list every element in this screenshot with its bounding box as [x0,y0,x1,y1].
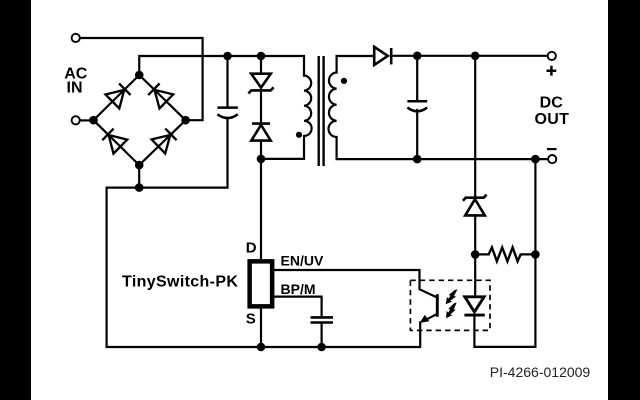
svg-text:OUT: OUT [534,111,569,128]
node bridge left [89,116,98,125]
wire bridge arm left-bottom [94,120,140,165]
wire bridge arm bottom-right [139,120,185,165]
wire opto LED cathode to bottom loop [474,159,535,347]
optocoupler dashed box [410,280,490,330]
resistor feedback [489,247,521,261]
wire EN/UV to opto collector [274,270,419,289]
capacitor bypass BP/M [311,317,334,322]
optocoupler photon arrow upper [446,289,458,304]
svg-text:BP/M: BP/M [281,281,316,297]
node clamp bottom / D net [257,155,266,164]
wire output rail diode to DC+ [391,55,547,57]
bridge diode lower-right [152,129,177,154]
svg-text:IN: IN [67,80,83,97]
wire top rail from bridge top node to primary top [139,56,304,76]
bridge diode lower-left [102,129,127,154]
svg-text:D: D [246,240,257,257]
node bottom return tee [135,183,144,192]
optocoupler phototransistor [420,289,438,320]
label minus [547,148,557,150]
node bridge top [135,71,144,80]
bridge diode upper-left [106,84,131,109]
transformer core [319,56,324,166]
svg-text:TinySwitch-PK: TinySwitch-PK [122,274,238,291]
svg-text:PI-4266-012009: PI-4266-012009 [490,364,591,380]
label plus [547,66,557,76]
node bridge bottom [135,161,144,170]
wire bridge arm left-top [94,75,140,120]
wire left return down to bottom rail [107,188,421,347]
wire AC top terminal to bridge right node [80,38,202,120]
wire BP/M to bypass cap [274,297,321,317]
svg-text:DC: DC [540,94,564,111]
wire filter cap bottom lead to bottom return [139,118,227,188]
transformer primary phase dot [296,132,302,138]
wire output cap leads [416,56,418,159]
wire bridge arm top-right [139,75,185,120]
wire primary bottom lead [261,136,304,159]
terminal AC bottom [72,116,80,124]
transformer primary winding [304,76,312,137]
wire clamp chain / D net [260,56,262,259]
svg-text:S: S [246,311,256,328]
optocoupler photon arrow lower [446,303,457,319]
optocoupler LED [464,297,484,315]
node resistor-rail junction [531,250,540,259]
node clamp top [257,52,266,61]
terminal AC top [72,34,80,42]
node bridge right [181,116,190,125]
node feedback tap + [471,52,480,61]
transformer secondary phase dot [341,78,347,84]
diode output rectifier [374,47,391,65]
node filter cap top [223,52,232,61]
wire filter cap top lead [226,56,228,107]
node output cap top [413,52,422,61]
bridge diode upper-right [148,84,173,109]
IC TinySwitch-PK U1 [250,261,273,306]
node output cap bottom [413,155,422,164]
zener clamp VR [248,74,273,94]
capacitor input filter [217,108,237,118]
wire bypass cap bottom lead [321,324,323,347]
svg-text:EN/UV: EN/UV [281,253,324,269]
node minus rail tap [531,155,540,164]
wire AC bottom terminal to bridge left node [80,119,93,121]
diode clamp blocking [251,124,270,141]
optocoupler emitter arrowhead [420,315,430,323]
wire feedback zener chain [474,56,476,297]
wire secondary bottom rail to DC- [337,137,548,159]
wire resistor end leads [475,253,535,255]
node zener-resistor junction [471,250,480,259]
node S-rail junction [257,343,266,352]
terminal DC+ [548,52,556,60]
terminal DC- [548,155,556,163]
wire S pin lead [260,309,262,347]
capacitor output [407,101,427,111]
transformer secondary winding [329,73,337,138]
node bypass cap rail junction [317,343,326,352]
wire secondary top lead to output diode [337,56,374,73]
zener feedback [463,195,487,216]
